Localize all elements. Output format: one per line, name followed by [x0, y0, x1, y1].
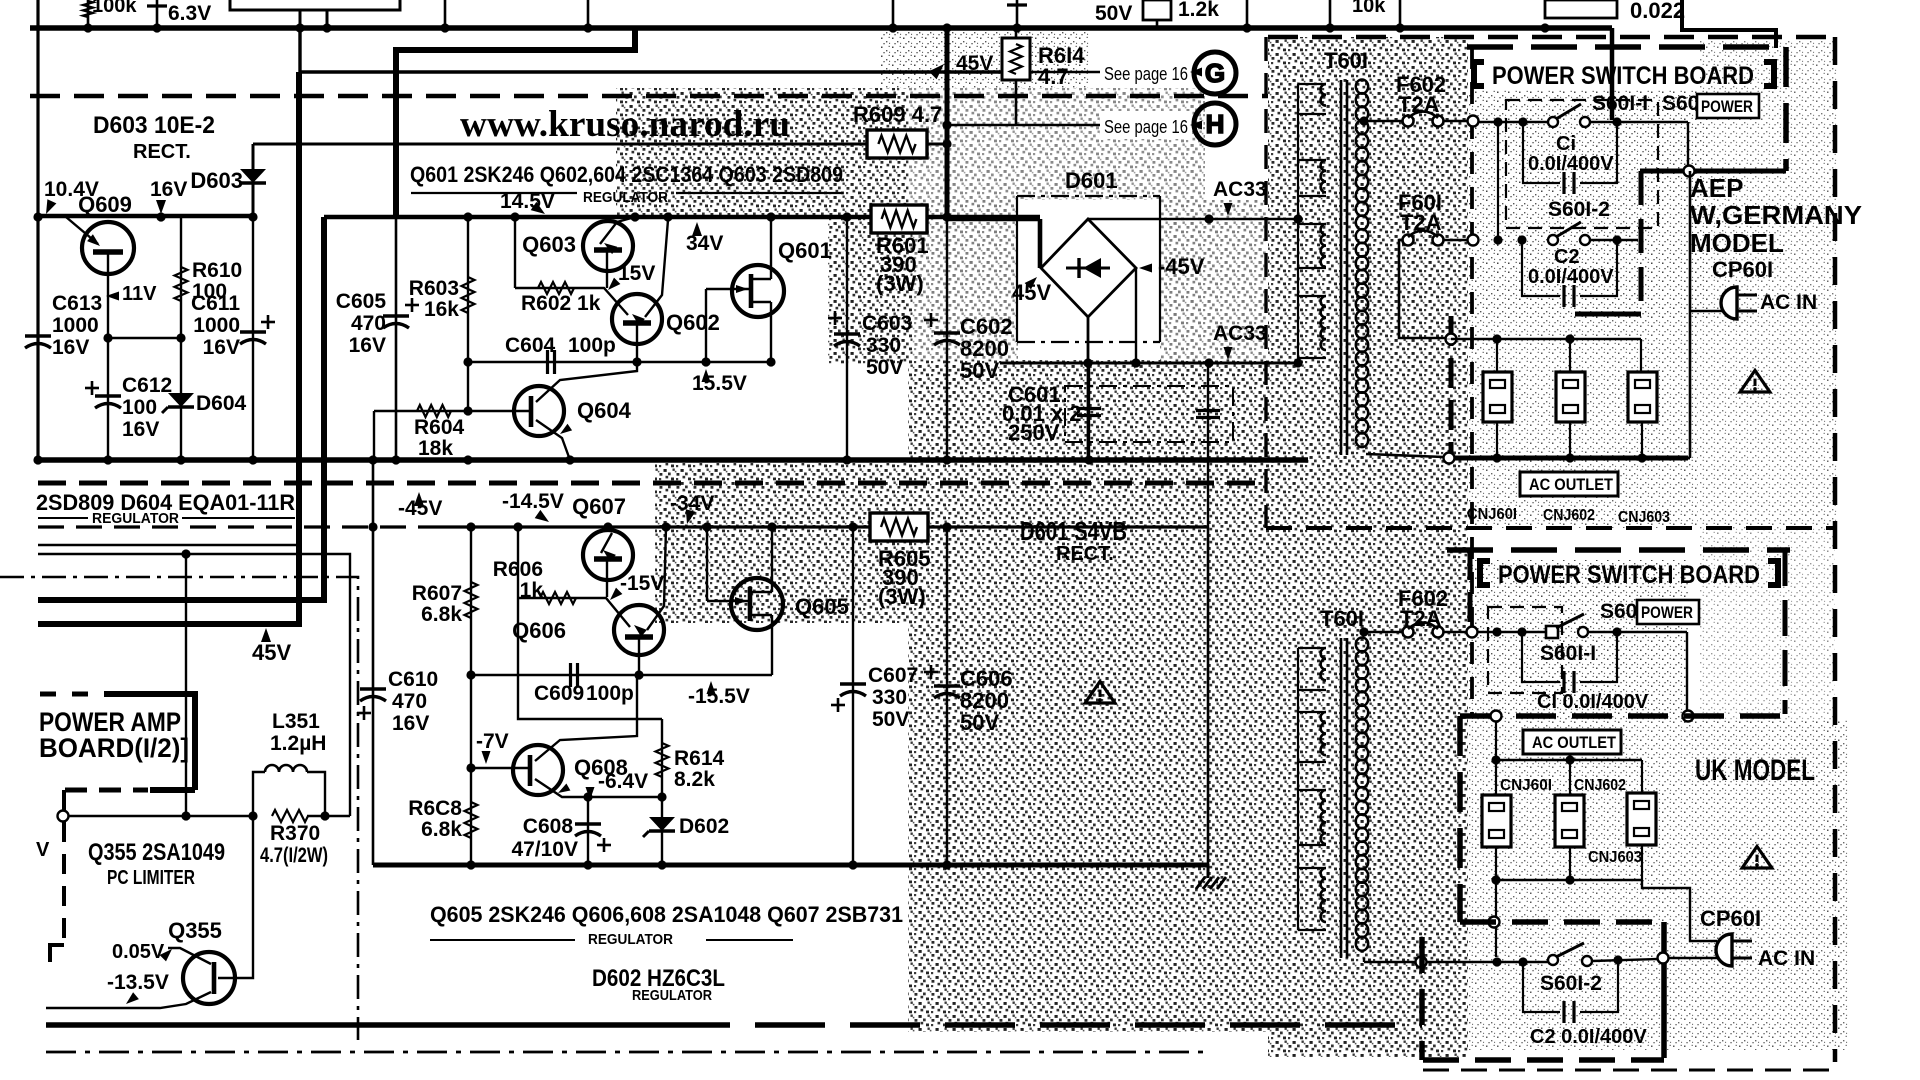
- svg-text:C608: C608: [523, 815, 574, 838]
- svg-text:C603: C603: [862, 312, 912, 335]
- svg-text:CNJ60I: CNJ60I: [1467, 506, 1517, 523]
- title POWER SWITCH BOARD (top): [1474, 62, 1484, 86]
- wire thin y545: [38, 544, 298, 546]
- svg-text:50V: 50V: [960, 358, 999, 383]
- svg-text:Ci: Ci: [1556, 133, 1576, 155]
- resistor R607 6.8k: [470, 527, 472, 675]
- svg-text:Q605: Q605: [795, 594, 849, 619]
- svg-text:Q604: Q604: [577, 398, 632, 423]
- capacitor C607 330/50V: [852, 527, 854, 865]
- svg-text:100p: 100p: [586, 682, 634, 705]
- wire stub: [892, 0, 895, 28]
- svg-text:50V: 50V: [872, 708, 909, 731]
- svg-text:POWER: POWER: [1701, 97, 1753, 116]
- thick dashed mains y922 (UK): [1460, 919, 1664, 925]
- capacitor C602 8200/50V: [946, 217, 948, 460]
- capacitor C606 8200/50V: [946, 527, 948, 865]
- wire stub: [587, 0, 590, 28]
- T601 top left tap bus: [1297, 84, 1299, 363]
- svg-text:AC33: AC33: [1213, 178, 1267, 201]
- wire y816 to L351: [69, 815, 253, 817]
- svg-text:11V: 11V: [122, 283, 157, 305]
- wire Q608 emitter row: [588, 796, 662, 798]
- AC outlet connector CNJ602 (top): [1556, 372, 1585, 422]
- svg-text:C609: C609: [534, 682, 584, 705]
- wire 45V vertical x947: [945, 28, 950, 219]
- wire stub: [326, 10, 329, 28]
- T601 bottom left tap bus: [1297, 648, 1299, 930]
- svg-text:15.5V: 15.5V: [692, 372, 747, 395]
- svg-text:V: V: [36, 839, 50, 861]
- dashed boundary horizontal y528: [1266, 526, 1835, 530]
- wire to H flag: [947, 124, 1188, 127]
- svg-text:250V: 250V: [1008, 420, 1060, 445]
- svg-text:1k: 1k: [520, 579, 544, 602]
- svg-text:D604: D604: [196, 392, 247, 415]
- dashed box (UK): [1488, 607, 1562, 693]
- svg-text:C607: C607: [868, 664, 918, 687]
- svg-text:C2 0.0I/400V: C2 0.0I/400V: [1530, 1026, 1647, 1048]
- ground symbol: [1207, 864, 1210, 878]
- halftone scan noise patches: [616, 88, 908, 218]
- svg-text:T60I: T60I: [1320, 606, 1364, 631]
- svg-text:C611: C611: [191, 292, 240, 315]
- zener diode D604: [168, 393, 194, 407]
- svg-text:T60I: T60I: [1324, 48, 1368, 73]
- rule REGULATOR: [411, 192, 577, 194]
- svg-text:-14.5V: -14.5V: [502, 490, 564, 513]
- svg-text:16V: 16V: [203, 336, 240, 359]
- svg-text:Q606: Q606: [512, 618, 566, 643]
- warning triangle (top right): [1740, 370, 1770, 392]
- wire T601 secondary bottom to outlet bus node: [1366, 454, 1444, 457]
- switch S601-2 (top): [1548, 235, 1558, 245]
- wire top horizontal bus: [30, 25, 1612, 31]
- outlet top feed bus: [1451, 338, 1641, 340]
- wire 45V branch x299 down to y624: [300, 28, 1016, 72]
- svg-text:0.0I/400V: 0.0I/400V: [1528, 266, 1614, 288]
- wire loop below C609: [518, 598, 662, 719]
- svg-text:4.7(I/2W): 4.7(I/2W): [260, 844, 328, 867]
- svg-text:CP60I: CP60I: [1712, 257, 1773, 282]
- svg-text:1000: 1000: [52, 314, 99, 337]
- connector pin circle AC: [1684, 166, 1695, 177]
- svg-text:47/10V: 47/10V: [511, 838, 578, 861]
- component box at top edge: [230, 0, 400, 10]
- resistor R614 4.7 (top box): [1015, 28, 1018, 125]
- svg-text:MODEL: MODEL: [1690, 228, 1784, 258]
- wire to G flag: [1016, 71, 1188, 74]
- svg-text:16V: 16V: [150, 178, 187, 201]
- switch S601-1 (UK): [1478, 631, 1546, 633]
- wire T601 bottom tap to S601-2: [1363, 958, 1365, 962]
- capacitor C603 330/50V: [846, 217, 848, 460]
- svg-text:AC OUTLET: AC OUTLET: [1532, 733, 1617, 752]
- svg-text:Q601: Q601: [778, 238, 832, 263]
- svg-text:10k: 10k: [1352, 0, 1386, 17]
- wire stub: [1399, 0, 1402, 28]
- svg-text:See page 16: See page 16: [1104, 64, 1188, 84]
- AC outlet connector CNJ602 (UK): [1555, 795, 1584, 847]
- resistor box 0.022 (cut): [1545, 0, 1617, 18]
- svg-text:RECT.: RECT.: [1056, 543, 1114, 565]
- svg-text:(3W): (3W): [876, 271, 924, 296]
- svg-text:Q355: Q355: [168, 918, 222, 943]
- svg-text:REGULATOR: REGULATOR: [588, 931, 673, 948]
- rail -45V y527: [38, 525, 440, 528]
- svg-text:C612: C612: [122, 374, 172, 397]
- svg-text:R607: R607: [412, 582, 462, 605]
- label AC OUTLET (top): [1520, 472, 1618, 496]
- rail 16V left section y216: [38, 214, 253, 219]
- svg-text:G: G: [1205, 58, 1225, 88]
- wire D603 top y144: [253, 143, 947, 146]
- wire top-right jog: [1682, 0, 1776, 48]
- svg-text:100k: 100k: [92, 0, 137, 17]
- svg-text:C610: C610: [388, 668, 438, 691]
- svg-text:UK MODEL: UK MODEL: [1695, 754, 1815, 787]
- thick bus y716 (UK): [1460, 713, 1785, 719]
- svg-text:50V: 50V: [1095, 2, 1132, 25]
- svg-text:REGULATOR: REGULATOR: [92, 510, 179, 527]
- wire stub: [1246, 0, 1249, 28]
- wire outlets to S601-2 node: [1495, 880, 1497, 957]
- svg-text:S60I-2: S60I-2: [1540, 972, 1602, 995]
- svg-text:POWER: POWER: [1641, 603, 1693, 622]
- svg-text:L351: L351: [272, 710, 320, 733]
- power switch board box (AEP): [1467, 44, 1786, 50]
- svg-text:1000: 1000: [193, 314, 240, 337]
- svg-text:CP60I: CP60I: [1700, 906, 1761, 931]
- resistor R606 1k: [517, 527, 519, 598]
- svg-text:W,GERMANY: W,GERMANY: [1690, 200, 1862, 230]
- svg-text:330: 330: [872, 686, 907, 709]
- svg-text:CNJ603: CNJ603: [1618, 509, 1670, 526]
- svg-text:14.5V: 14.5V: [500, 190, 555, 213]
- resistor R610 100: [180, 217, 182, 460]
- AC outlet connector CNJ601 (top): [1483, 372, 1512, 422]
- svg-text:16V: 16V: [52, 336, 89, 359]
- svg-text:PC LIMITER: PC LIMITER: [107, 867, 195, 889]
- svg-text:100: 100: [122, 396, 157, 419]
- connector pin circle on mains dash: [1489, 917, 1500, 928]
- capacitor C605 470/16V: [395, 217, 398, 460]
- svg-text:D602: D602: [679, 815, 729, 838]
- svg-text:CI 0.0I/400V: CI 0.0I/400V: [1537, 691, 1649, 713]
- svg-text:470: 470: [392, 690, 427, 713]
- svg-text:R370: R370: [270, 822, 320, 845]
- svg-text:www.kruso.narod.ru: www.kruso.narod.ru: [460, 104, 790, 145]
- wire AC33 bottom bus y363: [1000, 362, 1296, 365]
- svg-text:-6.4V: -6.4V: [598, 770, 648, 793]
- dashed outer boundary vertical x1835: [1833, 37, 1838, 1062]
- svg-text:CNJ603: CNJ603: [1588, 849, 1642, 866]
- svg-text:4.7: 4.7: [1038, 64, 1069, 89]
- svg-text:AC33: AC33: [1213, 322, 1267, 345]
- svg-text:CNJ60I: CNJ60I: [1500, 777, 1552, 794]
- svg-text:6.3V: 6.3V: [168, 2, 211, 25]
- svg-text:Q355 2SA1049: Q355 2SA1049: [88, 839, 225, 866]
- svg-text:1.2k: 1.2k: [1178, 0, 1219, 21]
- svg-text:BOARD(I/2)]: BOARD(I/2)]: [39, 733, 189, 763]
- power amp board title box: [40, 692, 56, 697]
- resistor R608 6.8k: [470, 675, 472, 865]
- svg-text:0.022: 0.022: [1630, 0, 1685, 23]
- wire Q603 base row / R602: [514, 217, 516, 288]
- svg-text:6.8k: 6.8k: [421, 818, 462, 841]
- svg-text:See page 16: See page 16: [1104, 117, 1188, 137]
- switch S601-2 (UK) wire: [1416, 957, 1427, 968]
- capacitor C604 100p: [468, 361, 771, 363]
- resistor R604 18k: [374, 410, 468, 412]
- bottom boundary thin dash y1052: [46, 1051, 1207, 1054]
- capacitor C1 0.01/400V (UK): [1522, 632, 1560, 682]
- capacitor C611 1000/16V: [252, 217, 254, 460]
- diode D603: [252, 144, 255, 217]
- svg-text:R6C8: R6C8: [408, 797, 462, 820]
- wire x373 bus-to-rail: [372, 460, 375, 865]
- svg-text:RECT.: RECT.: [133, 141, 191, 163]
- svg-text:CNJ602: CNJ602: [1574, 777, 1626, 794]
- wire AC33 top y219: [1088, 218, 1296, 220]
- svg-text:Q607: Q607: [572, 494, 626, 519]
- AC outlet connector CNJ603 (top): [1628, 372, 1657, 422]
- svg-text:Q605 2SK246 Q606,608 2SA1048: Q605 2SK246 Q606,608 2SA1048 Q607 2SB731: [430, 902, 903, 927]
- svg-text:AC IN: AC IN: [1758, 947, 1815, 970]
- wire branch x324 down to y600: [38, 217, 324, 600]
- bottom bus y865: [373, 863, 1208, 868]
- bridge inner diode: [1066, 267, 1110, 270]
- capacitor 6.3V (cut off): [156, 0, 159, 28]
- svg-text:330: 330: [866, 334, 901, 357]
- svg-text:S60I-I: S60I-I: [1540, 642, 1596, 665]
- wire Q601 gate vertical: [705, 289, 707, 362]
- wire thin y554 with corner x350: [38, 554, 350, 816]
- warning triangle (UK): [1742, 846, 1772, 868]
- svg-text:C604: C604: [505, 334, 556, 357]
- AC outlet bus structure (top): [1449, 316, 1454, 455]
- svg-text:S60I-2: S60I-2: [1548, 198, 1610, 221]
- wire S601-1 UK output corner: [1686, 632, 1688, 710]
- connector pin circle (UK): [1683, 711, 1694, 722]
- wire AC33 joins transformer: [1296, 218, 1298, 220]
- svg-text:AC IN: AC IN: [1760, 291, 1817, 314]
- wire stub: [444, 0, 447, 28]
- svg-text:Q609: Q609: [78, 192, 132, 217]
- svg-text:POWER SWITCH BOARD: POWER SWITCH BOARD: [1498, 561, 1760, 589]
- resistor R370 4.7(1/2W): [272, 810, 308, 822]
- svg-text:-15.5V: -15.5V: [688, 685, 750, 708]
- AC outlet connector CNJ601 (UK): [1482, 795, 1511, 847]
- warning triangle center: [1085, 681, 1115, 703]
- outlet feed wire (UK): [1495, 721, 1497, 760]
- zener diode D602: [661, 797, 663, 865]
- svg-text:-7V: -7V: [476, 730, 509, 753]
- svg-text:16V: 16V: [122, 418, 159, 441]
- capacitor C609 100p: [471, 674, 772, 676]
- svg-text:(3W): (3W): [878, 584, 926, 609]
- wire -45V right vertical to ground bus: [1207, 527, 1210, 878]
- svg-text:S60I-I: S60I-I: [1592, 92, 1648, 115]
- flag H circle: [1194, 103, 1236, 145]
- svg-text:6.8k: 6.8k: [421, 603, 462, 626]
- svg-text:CNJ602: CNJ602: [1543, 507, 1595, 524]
- svg-text:R610: R610: [192, 259, 242, 282]
- outlet bottom bus (UK): [1495, 847, 1497, 880]
- svg-text:C2: C2: [1554, 246, 1580, 268]
- svg-text:15V: 15V: [618, 262, 655, 285]
- svg-text:34V: 34V: [686, 232, 723, 255]
- svg-text:Q601 2SK246 Q602,604 2SC1364 Q: Q601 2SK246 Q602,604 2SC1364 Q603 2SD809: [410, 162, 843, 187]
- junction dots: [463, 212, 472, 221]
- wire top-right corner down: [1610, 28, 1615, 120]
- svg-text:-13.5V: -13.5V: [107, 971, 169, 994]
- resistor 1.2k (cut): [1156, 0, 1159, 28]
- resistor R603 16k: [467, 217, 469, 411]
- resistor R605 390 3W (box): [870, 513, 928, 541]
- svg-text:16V: 16V: [349, 334, 386, 357]
- dashed box around switches: [1506, 100, 1658, 228]
- svg-text:H: H: [1206, 109, 1225, 139]
- svg-text:470: 470: [351, 312, 386, 335]
- wire Q605 gate vertical: [706, 527, 708, 601]
- rail 14.5V horizontal y217: [324, 215, 1040, 220]
- svg-text:1.2µH: 1.2µH: [270, 732, 326, 755]
- svg-text:R606: R606: [493, 558, 543, 581]
- wire stub: [299, 10, 302, 28]
- AC outlet connector CNJ603 (UK): [1627, 793, 1656, 845]
- connector pin circle (UK fuse): [1467, 627, 1478, 638]
- svg-text:45V: 45V: [252, 640, 291, 665]
- capacitor C2 0.01/400V (UK): [1523, 962, 1560, 1012]
- svg-text:C613: C613: [52, 292, 102, 315]
- svg-text:16V: 16V: [392, 712, 429, 735]
- wire bus y460 ends at transformer: [1296, 459, 1308, 462]
- capacitor 50V stub (cut): [1016, 0, 1019, 28]
- svg-text:16k: 16k: [424, 298, 459, 321]
- svg-text:0.05V: 0.05V: [112, 941, 165, 963]
- svg-text:0.0I/400V: 0.0I/400V: [1528, 153, 1614, 175]
- junction dots on top bus: [83, 23, 92, 32]
- outer dashed bottom right: [1423, 1069, 1835, 1072]
- open circle terminal: [58, 811, 69, 822]
- junction dots rail y217: [33, 212, 42, 221]
- svg-text:R609 4.7: R609 4.7: [853, 102, 942, 127]
- svg-text:Q602: Q602: [666, 310, 720, 335]
- resistor 100k (cut off at top): [87, 0, 90, 28]
- UK board box bottom: [1419, 937, 1425, 1060]
- dashed board line y483: [38, 481, 1266, 486]
- outlet bottom bus (top board): [1496, 422, 1498, 458]
- power switch board box (UK): [1447, 547, 1790, 553]
- dashed board boundary top right y37: [1268, 35, 1835, 40]
- wire bridge bottom vertex down: [1087, 317, 1090, 460]
- wire 45V feed: top corner from bus via x635: [396, 28, 635, 217]
- svg-text:8.2k: 8.2k: [674, 768, 715, 791]
- dashed board boundary horizontal y96: [30, 94, 1268, 99]
- svg-text:R604: R604: [414, 416, 465, 439]
- resistor R601 390 3W (box): [871, 205, 927, 233]
- title POWER SWITCH BOARD (UK): [1480, 561, 1490, 585]
- wire Q609 emitter to R610: [108, 337, 181, 339]
- wire S601-1 to AC line corner: [1687, 122, 1689, 165]
- switch S601-1 (top): [1479, 121, 1548, 123]
- capacitor C612 100/16V: [107, 338, 109, 460]
- svg-text:D603 10E-2: D603 10E-2: [93, 112, 215, 139]
- svg-text:C605: C605: [336, 290, 387, 313]
- label AC OUTLET (UK): [1523, 730, 1621, 754]
- dashed boundary vertical x1472: [1470, 47, 1474, 716]
- svg-text:45V: 45V: [956, 52, 993, 75]
- wire stub: [1329, 0, 1332, 28]
- svg-text:AEP: AEP: [1690, 173, 1743, 203]
- svg-text:POWER SWITCH BOARD: POWER SWITCH BOARD: [1492, 62, 1754, 90]
- resistor R614 8.2k (lower): [661, 719, 663, 797]
- wire +45V elbow into bridge: [1038, 219, 1043, 268]
- svg-text:R602 1k: R602 1k: [521, 292, 601, 315]
- svg-text:50V: 50V: [866, 356, 903, 379]
- svg-text:D601: D601: [1065, 168, 1118, 193]
- svg-text:-45V: -45V: [1158, 254, 1205, 279]
- svg-text:100p: 100p: [568, 334, 616, 357]
- svg-text:D601 S4VB: D601 S4VB: [1020, 516, 1127, 546]
- bottom bus y460 left section: [38, 457, 1308, 463]
- bridge rectifier D601 diamond: [1041, 219, 1136, 317]
- connector pin circle: [1468, 116, 1479, 127]
- svg-text:-15V: -15V: [620, 572, 664, 595]
- capacitor C608 47/10V: [587, 797, 589, 865]
- wire branch x186 down to L351 node: [185, 554, 187, 816]
- svg-text:REGULATOR: REGULATOR: [632, 987, 712, 1004]
- flag G circle: [1194, 52, 1236, 94]
- svg-text:AC OUTLET: AC OUTLET: [1529, 475, 1614, 494]
- wire AC line vertical x1690: [1689, 171, 1692, 458]
- capacitor C613 1000/16V: [37, 330, 39, 352]
- svg-text:D603: D603: [190, 168, 243, 193]
- connector pin circle: [1468, 235, 1479, 246]
- svg-text:R603: R603: [409, 277, 459, 300]
- wire left vertical bus x38: [36, 0, 39, 460]
- bottom boundary thick dash y1025: [46, 1022, 660, 1028]
- wire link between switch wires: [1497, 122, 1499, 240]
- capacitor C610 470/16V: [360, 687, 386, 690]
- svg-text:REGULATOR: REGULATOR: [583, 189, 668, 206]
- svg-text:50V: 50V: [960, 710, 999, 735]
- dashed board boundary vertical x1266: [1264, 37, 1267, 528]
- dash-dot boundary y577 x358: [0, 577, 358, 1040]
- wire bridge right vertex down: [1135, 268, 1137, 363]
- svg-text:Q603: Q603: [522, 232, 576, 257]
- svg-text:18k: 18k: [418, 437, 453, 460]
- svg-text:R614: R614: [674, 747, 725, 770]
